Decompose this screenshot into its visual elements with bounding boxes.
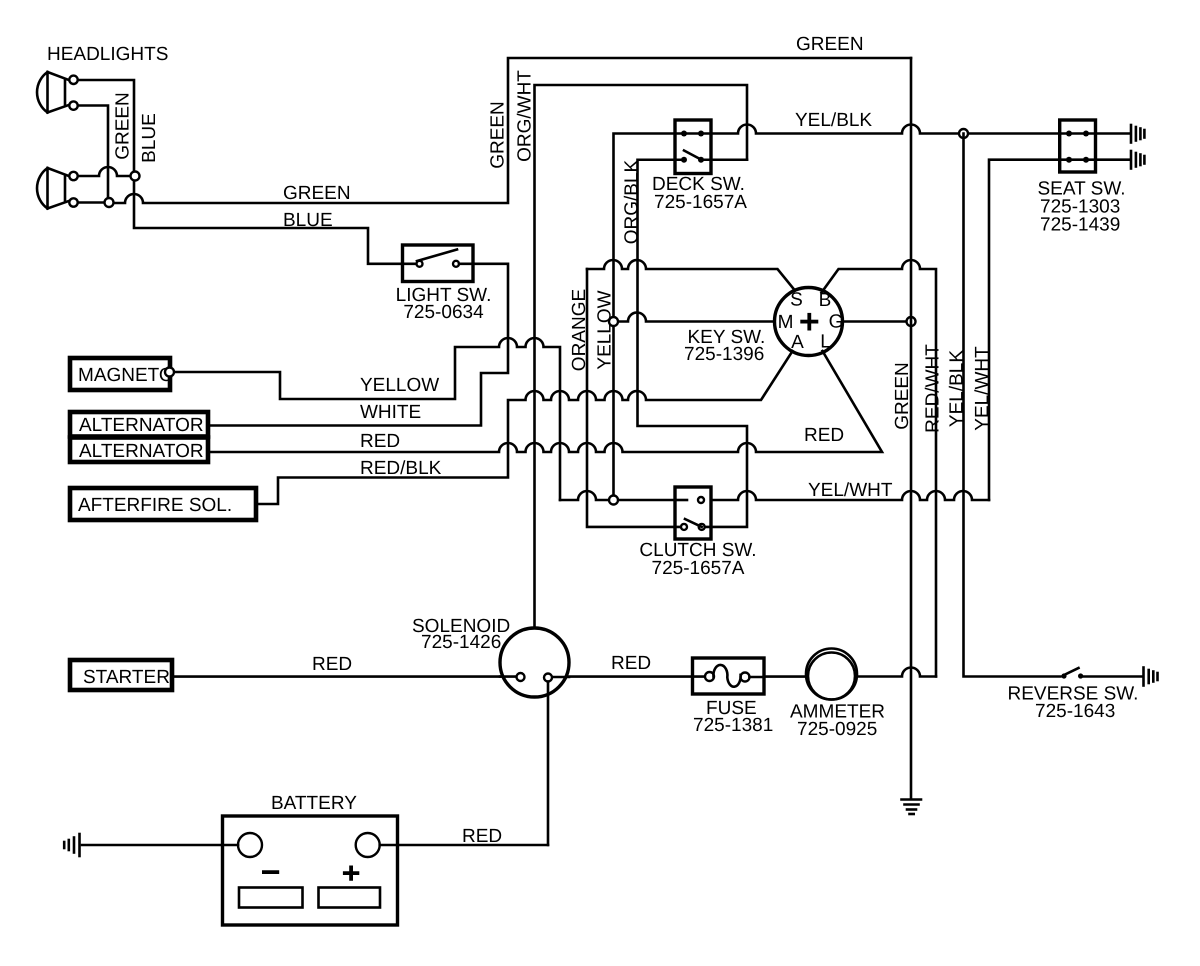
wire key B diagonal to RED/WHT riser <box>822 260 937 677</box>
svg-text:GREEN: GREEN <box>283 183 351 204</box>
svg-text:RED: RED <box>462 826 502 847</box>
battery BATTERY <box>223 816 398 925</box>
wire YEL/WHT from seat sw bottom down to clutch row <box>989 160 1060 500</box>
wire YELLOW from magneto: up, over, down to YEL/WHT row <box>174 338 560 500</box>
svg-text:YEL/BLK: YEL/BLK <box>795 110 872 131</box>
wire solenoid to fuse <box>569 675 705 678</box>
node junction green / G row <box>907 317 916 326</box>
svg-text:GREEN: GREEN <box>488 101 509 169</box>
svg-text:725-0925: 725-0925 <box>797 719 877 740</box>
wire lamp2 top terminal to BLUE with hop over green <box>78 167 135 176</box>
wire ammeter to RED/WHT riser with hop over green <box>857 668 936 677</box>
wire key A row to RED/BLK riser and afterfire solenoid <box>256 351 793 504</box>
alternator box 1 ALTERNATOR <box>70 412 208 437</box>
wire GREEN main vertical down to ground <box>910 58 913 798</box>
wire STARTER to solenoid <box>172 675 500 678</box>
key switch KEY SW. 725-1396 <box>775 288 844 356</box>
wire ORANGE riser from S/B row to clutch bottom-left <box>587 269 684 527</box>
svg-text:B: B <box>819 290 832 311</box>
light switch LIGHT SW. 725-0634 <box>403 245 474 282</box>
svg-text:WHITE: WHITE <box>360 402 421 423</box>
starter box STARTER <box>70 660 172 690</box>
svg-text:YEL/WHT: YEL/WHT <box>808 480 893 501</box>
node junction yellow / YEL/WHT row <box>609 496 618 505</box>
ground seat top <box>1131 125 1144 143</box>
svg-text:ALTERNATOR: ALTERNATOR <box>79 415 204 436</box>
wire key M row from YELLOW node <box>614 313 775 322</box>
svg-text:AFTERFIRE SOL.: AFTERFIRE SOL. <box>78 495 232 516</box>
wire battery positive RED to solenoid <box>380 844 548 847</box>
node junction yellow / M row <box>609 317 618 326</box>
svg-text:G: G <box>829 312 844 333</box>
wire lamp2 bottom terminal to GREEN node <box>78 201 109 204</box>
ground battery <box>64 834 79 856</box>
wire solenoid right terminal down to battery <box>547 682 550 846</box>
svg-text:YELLOW: YELLOW <box>360 375 439 396</box>
svg-text:RED: RED <box>312 654 352 675</box>
svg-text:ORG/BLK: ORG/BLK <box>622 159 643 244</box>
svg-text:725-1396: 725-1396 <box>684 344 764 365</box>
wire GREEN from node right, hop over blue, up at x508, along top to x911 <box>109 58 911 203</box>
svg-text:M: M <box>778 312 794 333</box>
wire ORG/WHT top run from x534.5 down to solenoid and over to deck switch <box>535 85 748 628</box>
wire key S/B row from ORANGE riser to RED/WHT riser <box>587 260 795 291</box>
wire deck sw bottom-right up to ORG/WHT run <box>701 158 747 161</box>
svg-text:S: S <box>790 290 803 311</box>
svg-text:725-1657A: 725-1657A <box>652 558 745 579</box>
node junction blue/lamp2 <box>131 172 140 181</box>
svg-text:RED: RED <box>360 431 400 452</box>
magneto box MAGNETO <box>70 358 174 390</box>
wire BLUE from lamp1 top terminal down to light switch <box>78 80 417 264</box>
ammeter AMMETER 725-0925 <box>806 649 857 700</box>
deck switch DECK SW. 725-1657A <box>675 120 711 174</box>
svg-text:RED/BLK: RED/BLK <box>360 458 442 479</box>
wire ORG/BLK from deck sw bottom-left down and over to clutch sw <box>638 160 748 527</box>
afterfire solenoid box AFTERFIRE SOL. <box>70 488 256 520</box>
svg-text:GREEN: GREEN <box>113 92 134 160</box>
wire key L diagonal to RED row <box>208 351 882 452</box>
wire from light switch right terminal down (becomes WHITE to alternator) <box>208 264 508 426</box>
svg-text:RED/WHT: RED/WHT <box>923 344 944 433</box>
svg-text:HEADLIGHTS: HEADLIGHTS <box>47 44 168 65</box>
seat switch SEAT SW. 725-1303 725-1439 <box>1060 120 1096 172</box>
svg-text:ALTERNATOR: ALTERNATOR <box>79 441 204 462</box>
alternator box 2 ALTERNATOR <box>70 438 208 463</box>
wire battery negative to ground <box>82 844 238 847</box>
node junction yel/blk branch <box>959 129 968 138</box>
wire GREEN lamp vertical from lamp1 bottom terminal <box>78 106 108 204</box>
svg-text:L: L <box>820 332 831 353</box>
svg-text:725-1439: 725-1439 <box>1040 215 1120 236</box>
svg-text:725-1381: 725-1381 <box>693 715 773 736</box>
wire YEL/WHT from clutch right to seat riser <box>711 491 989 500</box>
svg-text:BLUE: BLUE <box>283 210 333 231</box>
svg-text:725-1643: 725-1643 <box>1035 701 1115 722</box>
wire seat sw bottom to ground <box>1096 158 1131 161</box>
wire YEL/WHT row from yellow riser to clutch and right risers <box>560 491 675 500</box>
svg-text:RED: RED <box>611 653 651 674</box>
svg-text:YELLOW: YELLOW <box>595 290 616 369</box>
headlight lamp 1 terminal pins <box>69 76 77 84</box>
headlight lamp 1 <box>37 72 69 113</box>
svg-text:ORANGE: ORANGE <box>569 289 590 371</box>
solenoid SOLENOID 725-1426 <box>500 628 569 697</box>
fuse FUSE 725-1381 <box>693 658 765 694</box>
wire key G row to GREEN <box>843 320 912 323</box>
clutch switch CLUTCH SW. 725-1657A <box>675 487 711 539</box>
svg-text:725-0634: 725-0634 <box>403 302 484 323</box>
svg-text:STARTER: STARTER <box>83 667 170 688</box>
ground reverse switch <box>1144 668 1158 686</box>
wire YEL/BLK from deck sw top-right to seat switch with hops <box>701 125 1060 134</box>
svg-text:YEL/WHT: YEL/WHT <box>972 346 993 431</box>
svg-text:BATTERY: BATTERY <box>271 793 357 814</box>
ground GREEN bottom <box>902 800 922 815</box>
wire YEL/BLK riser down to reverse switch <box>964 134 1061 677</box>
headlight lamp 2 terminal pins <box>69 172 77 180</box>
reverse switch REVERSE SW. 725-1643 <box>1061 668 1141 679</box>
node junction green/lamp2 <box>105 198 114 207</box>
svg-text:ORG/WHT: ORG/WHT <box>515 70 536 162</box>
headlight lamp 2 <box>37 168 69 209</box>
wire seat sw top to ground <box>1096 132 1131 135</box>
wire YELLOW from deck sw top-left down to key M and clutch row <box>614 134 685 501</box>
svg-text:725-1426: 725-1426 <box>421 632 501 653</box>
wire fuse to ammeter <box>750 675 807 678</box>
svg-text:MAGNETO: MAGNETO <box>78 365 174 386</box>
svg-text:BLUE: BLUE <box>139 113 160 163</box>
ground seat bottom <box>1131 151 1144 169</box>
svg-text:725-1657A: 725-1657A <box>654 192 747 213</box>
svg-text:RED: RED <box>804 425 844 446</box>
svg-text:GREEN: GREEN <box>796 34 864 55</box>
